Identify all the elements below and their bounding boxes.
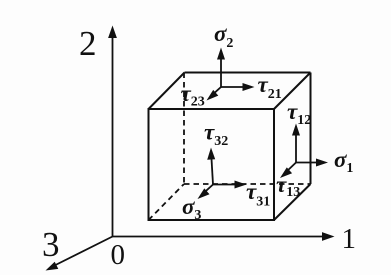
svg-text:τ13: τ13 (276, 172, 300, 200)
svg-text:τ23: τ23 (181, 81, 205, 110)
cube top-left edge (149, 73, 185, 110)
svg-text:σ1: σ1 (334, 147, 353, 176)
arrow sigma2 (top face, up) (217, 48, 225, 88)
cube top-right edge (274, 73, 311, 110)
axis 3 (diagonal) (46, 237, 113, 271)
cube bottom-right edge (274, 184, 311, 220)
arrow sigma1 (right face, right) (296, 159, 328, 167)
svg-text:σ2: σ2 (214, 21, 233, 51)
cube hidden back-left edge (dashed) (183, 73, 185, 185)
arrow tau21 (top face, right) (221, 83, 255, 91)
arrow tau12 (right face, up) (292, 124, 300, 163)
svg-text:0: 0 (111, 239, 126, 271)
svg-text:τ12: τ12 (287, 99, 311, 128)
axis 2 (vertical) (108, 26, 117, 237)
cube front face (149, 109, 275, 220)
arrow sigma3 (front face, down-left) (198, 185, 214, 200)
cube hidden back-bottom edge (dashed) (184, 183, 311, 185)
cube back-right edge (310, 73, 312, 185)
axis 1 (horizontal) (113, 232, 335, 241)
arrow tau23 (top face, down-left) (207, 87, 222, 101)
cube back-top edge (185, 72, 311, 74)
cube hidden bottom-left edge (dashed) (149, 184, 185, 220)
arrow tau13 (right face, down-left) (280, 163, 296, 179)
arrow tau31 (front face, right) (213, 181, 247, 189)
svg-text:1: 1 (342, 223, 357, 255)
arrow tau32 (front face, up) (207, 148, 215, 185)
svg-text:2: 2 (79, 24, 97, 63)
svg-text:3: 3 (42, 225, 60, 264)
svg-text:τ32: τ32 (204, 120, 228, 150)
svg-text:τ21: τ21 (258, 72, 282, 102)
svg-text:τ31: τ31 (246, 179, 270, 210)
